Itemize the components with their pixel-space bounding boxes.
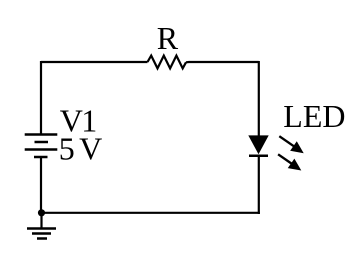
LED arrow 2: [278, 154, 301, 170]
svg-text:LED: LED: [283, 98, 345, 134]
wire bottom: [42, 212, 260, 214]
wire top-right segment: [186, 61, 259, 63]
resistor R: [148, 56, 187, 69]
battery V1 plate short: [35, 141, 49, 144]
battery V1 plate long bottom: [25, 148, 58, 151]
wire right lower: [258, 156, 260, 214]
LED arrow 1: [279, 136, 303, 153]
node junction dot: [38, 209, 45, 216]
battery V1 plate long top: [25, 133, 58, 136]
LED cathode bar: [249, 155, 268, 158]
ground: [27, 229, 56, 239]
wire right upper: [258, 61, 260, 136]
svg-text:R: R: [157, 20, 179, 56]
wire top-left segment: [41, 61, 148, 63]
LED D1 triangle: [248, 135, 268, 154]
wire left lower: [40, 157, 42, 213]
svg-text:V: V: [79, 130, 102, 166]
battery V1 plate short bottom: [34, 156, 48, 159]
wire left upper: [40, 61, 42, 135]
svg-text:5: 5: [59, 130, 75, 166]
ground stub wire: [40, 213, 42, 228]
